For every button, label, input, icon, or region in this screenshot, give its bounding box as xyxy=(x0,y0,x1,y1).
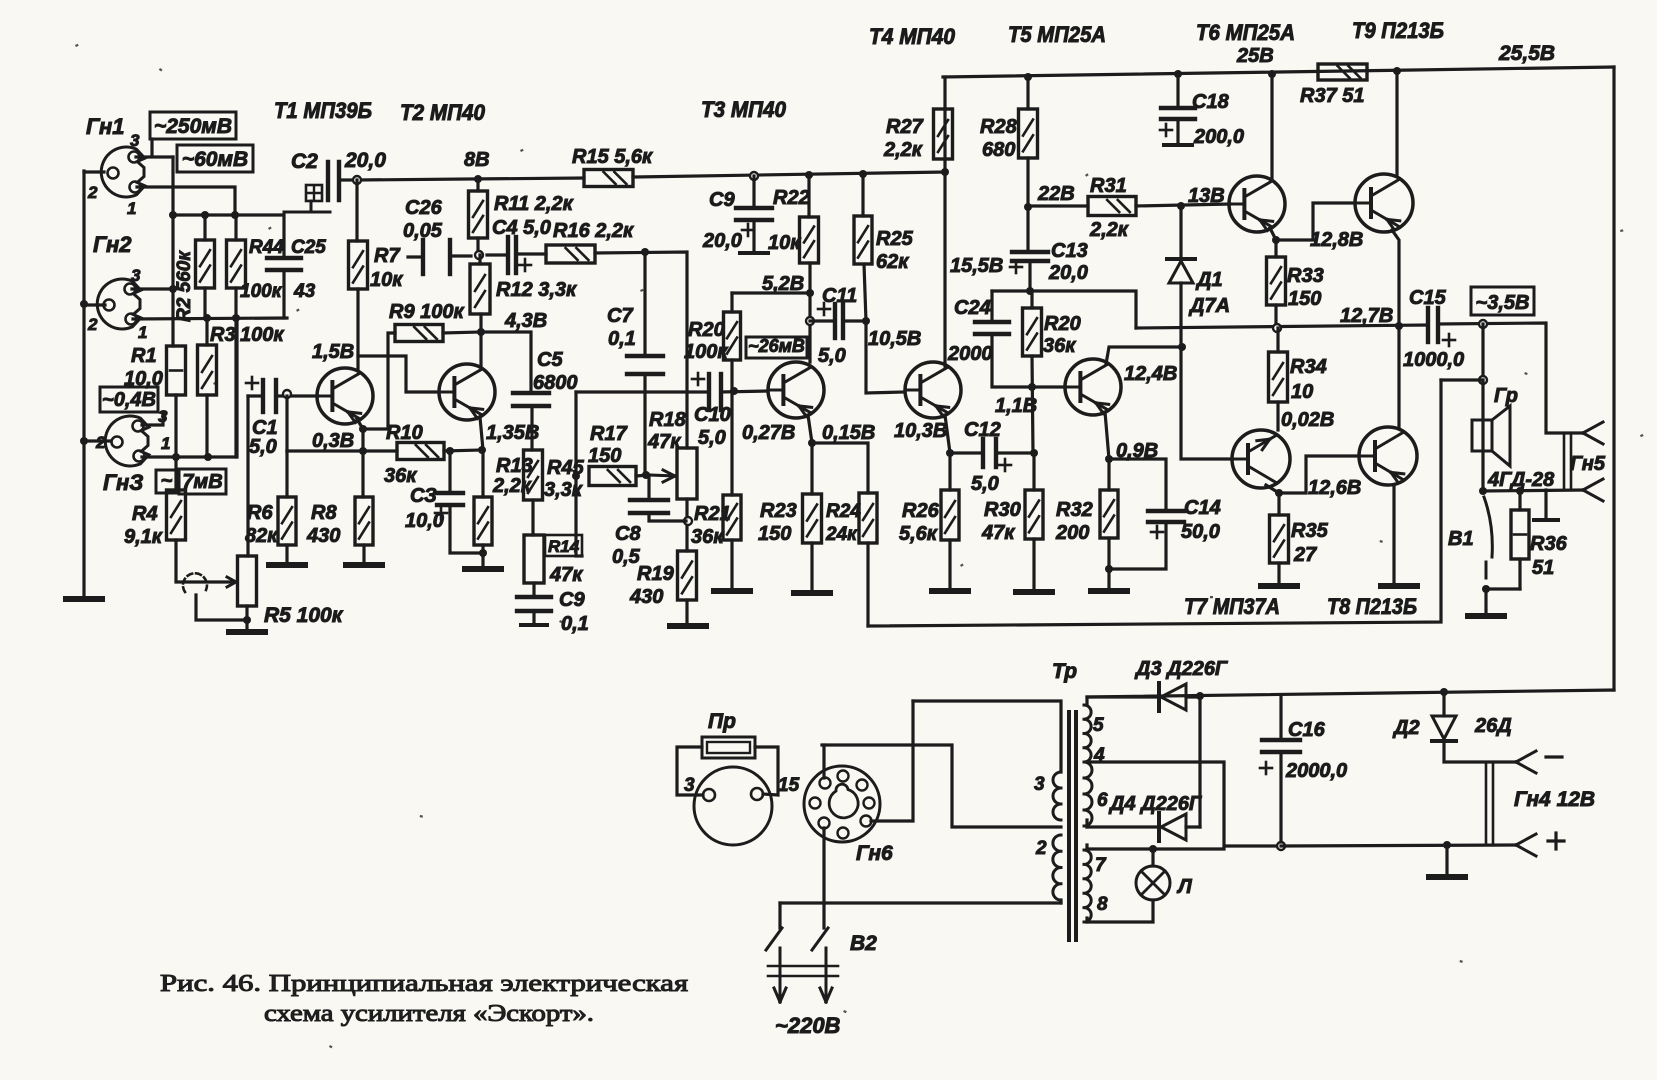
wire T6e to T9 base xyxy=(1276,203,1355,240)
node rail318 R44col xyxy=(232,314,240,322)
svg-text:13В: 13В xyxy=(1188,185,1225,207)
box ~3.5V xyxy=(1471,287,1534,315)
wire R33 bottom stem xyxy=(1274,305,1277,328)
resistor R23 xyxy=(803,494,822,543)
wire Gn6 right pin run xyxy=(871,701,913,821)
svg-text:С24: С24 xyxy=(954,297,991,319)
capacitor C10 xyxy=(707,374,711,410)
svg-text:2000,0: 2000,0 xyxy=(1285,760,1347,782)
svg-text:С11: С11 xyxy=(822,285,857,307)
svg-text:~26мВ: ~26мВ xyxy=(748,336,805,356)
resistor R33 xyxy=(1267,257,1286,305)
svg-text:С8: С8 xyxy=(615,523,641,545)
wire primary top lead xyxy=(913,701,1061,772)
node R25 top xyxy=(859,170,867,178)
svg-text:7мВ: 7мВ xyxy=(182,471,222,493)
svg-text:Гн4 12В: Гн4 12В xyxy=(1514,788,1595,811)
symbol R5 wiper arrow xyxy=(228,581,236,584)
svg-text:Гн1: Гн1 xyxy=(86,114,124,139)
svg-text:Д1: Д1 xyxy=(1195,269,1223,291)
wire C9a bottom stem xyxy=(752,220,755,251)
svg-text:Т9 П213Б: Т9 П213Б xyxy=(1352,18,1444,43)
node 22V xyxy=(1024,203,1032,211)
svg-text:10,0: 10,0 xyxy=(124,368,163,390)
node T7 emitter xyxy=(1275,489,1283,497)
svg-text:26Д: 26Д xyxy=(1474,715,1512,737)
node T4 emitter xyxy=(946,449,954,457)
svg-text:С13: С13 xyxy=(1051,240,1088,262)
svg-text:12,6В: 12,6В xyxy=(1308,477,1361,499)
node R5 bottom xyxy=(243,616,251,624)
wire Gn1 pin3 to column xyxy=(136,155,173,158)
box ~26mV xyxy=(746,337,807,358)
ground T8 xyxy=(1381,583,1417,589)
wire Gn5 switch bar xyxy=(1534,518,1558,522)
svg-text:3: 3 xyxy=(1034,774,1045,795)
transistor T1 xyxy=(317,368,373,424)
node gnd tap xyxy=(1443,841,1451,849)
wire R23 ground stem xyxy=(810,543,813,591)
wire R30 ground stem xyxy=(1032,539,1035,590)
svg-text:R3: R3 xyxy=(210,324,236,346)
box ~0.4V xyxy=(100,387,158,412)
svg-text:С2: С2 xyxy=(291,150,318,173)
wire T4 collector col xyxy=(943,77,946,366)
wire R2 bottom stem xyxy=(203,288,206,318)
transistor T9 xyxy=(1355,174,1413,232)
svg-text:С26: С26 xyxy=(405,197,443,219)
node T6 emitter xyxy=(1272,236,1280,244)
wire R24 branch xyxy=(812,443,868,493)
svg-text:Д3 Д226Г: Д3 Д226Г xyxy=(1134,658,1229,680)
wire C18 top stem xyxy=(1176,74,1179,108)
wire T6 collector xyxy=(1270,74,1273,178)
svg-text:27: 27 xyxy=(1293,544,1317,566)
svg-text:36к: 36к xyxy=(384,465,417,487)
ground B1 xyxy=(1468,613,1504,619)
connector Gn2 xyxy=(97,279,141,329)
wire Gn3 pin3 stub xyxy=(142,412,163,425)
wire top bus xyxy=(943,67,1614,77)
svg-text:36к: 36к xyxy=(691,526,724,548)
node C14 bottom xyxy=(1105,565,1113,573)
wire C12 left lead xyxy=(950,451,983,454)
node R13 bottom xyxy=(479,549,487,557)
svg-text:СЗ: СЗ xyxy=(410,485,437,507)
wire R45 to R14 xyxy=(531,500,534,535)
wire R30 top stem xyxy=(1032,453,1035,490)
wire Gn2 pin1 rail y318 xyxy=(133,318,287,319)
wire C3 top stem xyxy=(448,451,451,493)
svg-text:47к: 47к xyxy=(981,522,1015,544)
svg-text:47к: 47к xyxy=(647,431,681,453)
svg-text:0,15В: 0,15В xyxy=(822,422,875,444)
svg-text:6: 6 xyxy=(1097,790,1108,811)
node C16 bottom xyxy=(1277,842,1285,850)
wire R34 to T7 collector xyxy=(1276,402,1279,430)
wire C18 end bar xyxy=(1164,143,1192,147)
svg-text:R1: R1 xyxy=(131,345,157,367)
wire Gn5 switch stub xyxy=(1544,490,1547,518)
svg-text:8В: 8В xyxy=(464,149,490,171)
wire C1 left stub xyxy=(248,394,263,397)
wire R21 ground stem xyxy=(730,540,733,589)
svg-text:36к: 36к xyxy=(1043,335,1076,357)
wire T9 emitter col xyxy=(1392,230,1399,427)
wire tone column x576 xyxy=(574,392,577,476)
wire w8 bottom stub xyxy=(1085,918,1088,922)
svg-text:10,3В: 10,3В xyxy=(894,420,947,442)
node speaker top xyxy=(1479,376,1487,384)
wire R3 bottom stem xyxy=(205,395,208,457)
node base measure xyxy=(283,390,291,398)
node T1e R9 xyxy=(359,425,367,433)
svg-text:R12 3,3к: R12 3,3к xyxy=(496,279,577,301)
label plus sign xyxy=(1548,839,1564,842)
svg-text:R4: R4 xyxy=(132,503,158,525)
node R37 right xyxy=(1393,67,1401,75)
transformer secondary winding 5-4 xyxy=(1084,705,1091,762)
wire D4 out xyxy=(1186,825,1200,828)
node C18 top xyxy=(1174,70,1182,78)
svg-text:150: 150 xyxy=(758,523,791,545)
wire T5 collector xyxy=(1106,347,1182,364)
wire C16 top stem xyxy=(1279,695,1282,740)
svg-text:R18: R18 xyxy=(649,409,687,431)
node C9 top xyxy=(750,172,758,180)
lamp L xyxy=(1136,866,1170,900)
node lamp top xyxy=(1149,845,1157,853)
svg-text:200: 200 xyxy=(1055,522,1089,544)
diode D2 xyxy=(1432,716,1456,739)
jack Gn5 sleeve lines xyxy=(1563,433,1566,490)
svg-text:430: 430 xyxy=(629,586,663,608)
wire R1 bottom stem xyxy=(174,395,177,457)
node C11 tap xyxy=(806,317,814,325)
wire R20b top stem xyxy=(1030,291,1033,308)
node Gn3 pin2 on rail xyxy=(80,437,88,445)
svg-text:20,0: 20,0 xyxy=(702,230,742,252)
capacitor C11 xyxy=(833,304,837,338)
capacitor C14 xyxy=(1148,509,1184,513)
svg-text:R13: R13 xyxy=(496,455,533,477)
wire mains bottom run xyxy=(780,901,1061,904)
wire w6 bottom stub xyxy=(1085,820,1088,827)
svg-text:R24: R24 xyxy=(826,501,861,522)
capacitor C13 xyxy=(1012,250,1048,254)
node D2 top xyxy=(1440,688,1448,696)
wire R19 ground stem xyxy=(685,600,688,624)
svg-text:20,0: 20,0 xyxy=(1048,262,1088,284)
jack Gn5 forks xyxy=(1583,422,1603,433)
potentiometer R18 xyxy=(677,448,697,499)
svg-text:С12: С12 xyxy=(964,419,1001,441)
resistor R14 xyxy=(524,535,544,583)
resistor R44 xyxy=(227,240,246,288)
wire T8 emitter stem xyxy=(1392,485,1395,583)
wire Gn6 top pin stub xyxy=(822,745,825,778)
ground R23 xyxy=(794,590,830,596)
wire R31 to T6 base xyxy=(1136,204,1230,206)
svg-text:R30: R30 xyxy=(984,499,1021,521)
wire C4 right lead xyxy=(516,252,546,255)
svg-text:ГнЗ: ГнЗ xyxy=(103,470,143,495)
capacitor C4 xyxy=(506,237,510,273)
ground R26 xyxy=(932,588,968,594)
wire R17 right xyxy=(636,475,648,476)
wire R3 top stem xyxy=(205,318,208,345)
svg-text:Д4 Д226Г: Д4 Д226Г xyxy=(1108,793,1203,815)
svg-text:R11 2,2к: R11 2,2к xyxy=(494,193,574,215)
svg-text:Гн5: Гн5 xyxy=(1570,453,1606,475)
resistor R9 xyxy=(395,325,443,342)
jack Gn4 forks xyxy=(1516,751,1536,762)
wire base to R10 column xyxy=(285,396,288,451)
wire input column x173 xyxy=(171,157,174,346)
svg-text:С16: С16 xyxy=(1288,719,1326,741)
transformer primary winding 3 xyxy=(1053,772,1061,820)
svg-text:25В: 25В xyxy=(1236,45,1274,67)
svg-text:Т3 МП40: Т3 МП40 xyxy=(701,97,787,122)
box ~250mV xyxy=(150,112,236,139)
node R22 top xyxy=(805,171,813,179)
wire R35 top stem xyxy=(1277,493,1280,515)
svg-text:150: 150 xyxy=(588,445,621,467)
svg-text:2: 2 xyxy=(87,183,98,202)
svg-text:25,5В: 25,5В xyxy=(1498,42,1555,65)
svg-text:10к: 10к xyxy=(370,269,403,291)
wire R9 right run xyxy=(443,332,481,333)
wire R13 ground stem xyxy=(481,545,484,567)
wire T2 emitter stem xyxy=(480,417,483,497)
svg-text:10к: 10к xyxy=(768,232,801,254)
node y457 R3 xyxy=(204,453,212,461)
wire C25 bottom stem xyxy=(282,270,285,318)
potentiometer R5 xyxy=(238,556,257,606)
capacitor C8 xyxy=(630,498,668,502)
transistor T6 xyxy=(1229,176,1285,232)
wire R28 bottom col xyxy=(1026,158,1029,252)
node T1e y451 xyxy=(359,447,367,455)
wire T3 emitter xyxy=(808,415,812,494)
svg-text:4,3В: 4,3В xyxy=(504,310,547,332)
wire R24 bottom stem xyxy=(866,543,869,626)
wire T5 emitter xyxy=(1105,412,1109,490)
svg-text:R32: R32 xyxy=(1056,499,1093,521)
wire R35 ground stem xyxy=(1277,563,1280,583)
capacitor C9b xyxy=(517,595,551,599)
resistor R2 xyxy=(196,240,215,288)
node T3 emitter xyxy=(808,439,816,447)
node rail215 R2 xyxy=(201,211,209,219)
wire w5 to D3 xyxy=(1087,695,1158,698)
resistor R22 xyxy=(800,217,819,263)
node R11 top xyxy=(474,175,482,183)
resistor R24 xyxy=(859,493,877,543)
node y457 R1R4 xyxy=(172,453,180,461)
node T3 base xyxy=(730,387,738,395)
svg-text:R44: R44 xyxy=(249,237,284,258)
wire T7 emitter xyxy=(1266,485,1279,493)
wire C9b end bar xyxy=(521,623,547,627)
wire T1 collector xyxy=(356,289,359,370)
wire T9 collector xyxy=(1395,71,1398,175)
svg-text:В2: В2 xyxy=(850,932,877,955)
wire R2 top stem xyxy=(203,215,206,240)
svg-text:5,0: 5,0 xyxy=(971,473,999,495)
svg-text:R36: R36 xyxy=(1530,533,1568,555)
svg-text:С15: С15 xyxy=(1409,287,1447,309)
node C7 top xyxy=(641,248,649,256)
transformer core xyxy=(1067,712,1071,940)
svg-text:1: 1 xyxy=(161,434,170,453)
wire R9 left run xyxy=(363,333,395,429)
resistor R32 xyxy=(1100,490,1118,538)
svg-text:R33: R33 xyxy=(1287,265,1324,287)
wire D1 bottom col xyxy=(1181,283,1232,459)
wire D3 out xyxy=(1186,695,1200,698)
resistor R6 xyxy=(278,497,296,545)
wire right border xyxy=(1612,67,1615,690)
node D1 top xyxy=(1177,202,1185,210)
svg-text:R20: R20 xyxy=(1044,313,1081,335)
svg-text:0,27В: 0,27В xyxy=(742,422,795,444)
wire C11 right lead xyxy=(843,319,866,322)
connector Gn1 xyxy=(101,147,145,197)
ground R30 xyxy=(1016,589,1052,595)
capacitor C2 xyxy=(326,162,330,200)
wire speaker column top xyxy=(1481,324,1484,380)
svg-text:12,7В: 12,7В xyxy=(1340,305,1393,327)
svg-text:~0,4В: ~0,4В xyxy=(102,389,156,411)
switch B2 xyxy=(766,928,782,950)
wire DC plus bus xyxy=(1089,690,1614,697)
svg-text:R5 100к: R5 100к xyxy=(264,604,344,627)
svg-text:Т1 МП39Б: Т1 МП39Б xyxy=(274,98,372,123)
capacitor C26 xyxy=(421,240,425,274)
wire D2 top stem xyxy=(1442,692,1445,716)
wire speaker column xyxy=(1481,380,1484,491)
svg-text:Т7 МП37А: Т7 МП37А xyxy=(1184,594,1280,619)
svg-text:2: 2 xyxy=(87,315,98,334)
svg-text:3: 3 xyxy=(130,131,140,150)
ground R35 xyxy=(1261,583,1297,589)
svg-text:5: 5 xyxy=(1093,715,1104,736)
wire Gn1 pin1 run xyxy=(137,187,235,215)
svg-text:22В: 22В xyxy=(1037,183,1075,205)
svg-text:Т2 МП40: Т2 МП40 xyxy=(400,100,486,125)
wire C9a top stem xyxy=(752,176,755,208)
wire bias rail y215 xyxy=(173,213,283,216)
svg-text:8: 8 xyxy=(1097,894,1108,915)
resistor R7 xyxy=(349,241,368,289)
wire R4 top stem xyxy=(174,457,177,490)
svg-text:R19: R19 xyxy=(637,563,675,585)
node 3.5V xyxy=(1479,320,1487,328)
svg-text:С18: С18 xyxy=(1192,91,1230,113)
wire 12V rail xyxy=(1281,845,1516,846)
node Gn2 pin2 on rail xyxy=(80,300,88,308)
wire fuse right lead xyxy=(755,747,778,795)
node R18-R19 xyxy=(684,517,692,525)
svg-text:~60мВ: ~60мВ xyxy=(182,148,248,171)
resistor R30 xyxy=(1025,490,1043,539)
wire wiper link down xyxy=(196,595,247,620)
capacitor C3 xyxy=(437,491,463,495)
ground left rail xyxy=(66,596,102,602)
resistor R17 xyxy=(589,467,636,486)
wire T1 emitter xyxy=(357,419,363,497)
node R37 left xyxy=(1268,70,1276,78)
box ~ mark xyxy=(156,470,177,493)
capacitor C9a xyxy=(736,206,772,210)
wire 250mV box stub xyxy=(150,139,153,156)
wire 8V bus xyxy=(357,178,584,180)
jack Gn4 sleeve lines xyxy=(1485,762,1488,845)
wire fuse left lead xyxy=(677,747,703,795)
wire C14 bottom lead xyxy=(1109,522,1166,569)
wire R25 to T4 base xyxy=(864,264,905,393)
wire R8 ground stem xyxy=(362,545,365,563)
transformer primary winding 2 xyxy=(1053,835,1061,900)
capacitor C15 xyxy=(1426,308,1430,342)
svg-text:R17: R17 xyxy=(590,423,628,445)
svg-text:R9 100к: R9 100к xyxy=(389,301,464,323)
wire T2 collector stem xyxy=(479,332,482,368)
node T4col bus8V xyxy=(941,168,949,176)
svg-text:С9: С9 xyxy=(709,189,735,211)
node B1 bottom xyxy=(1482,585,1490,593)
svg-text:R28: R28 xyxy=(980,116,1018,138)
svg-text:3: 3 xyxy=(684,775,695,796)
wire Gn1 pin2 stub xyxy=(84,170,104,173)
wire C26 right lead xyxy=(450,254,471,257)
resistor R19 xyxy=(678,551,697,600)
svg-text:0,02В: 0,02В xyxy=(1281,409,1334,431)
svg-text:R15 5,6к: R15 5,6к xyxy=(572,146,653,168)
svg-text:0,3В: 0,3В xyxy=(312,430,354,452)
node C13 rail xyxy=(1026,287,1034,295)
svg-text:62к: 62к xyxy=(876,251,909,273)
svg-text:5,0: 5,0 xyxy=(698,427,726,449)
ground R6 xyxy=(269,562,305,568)
ground R5 xyxy=(229,629,265,635)
svg-text:0,1: 0,1 xyxy=(608,328,636,350)
wire C2 left bracket xyxy=(284,211,330,214)
node A xyxy=(475,251,483,259)
resistor R4 xyxy=(167,490,186,540)
transistor T5 xyxy=(1065,359,1121,415)
wire R18 bottom stem xyxy=(685,499,688,551)
wire D2 to minus xyxy=(1444,741,1516,762)
svg-text:Рис. 46. Принципиальная эле: Рис. 46. Принципиальная электрическая xyxy=(160,971,688,997)
symbol R5 adjust arc xyxy=(183,573,207,592)
node R36 top xyxy=(1516,487,1524,495)
svg-text:Д7А: Д7А xyxy=(1188,295,1230,317)
node R17 left xyxy=(572,472,580,480)
svg-text:Тр: Тр xyxy=(1052,660,1077,683)
resistor R25 xyxy=(854,216,872,264)
svg-text:R2 560к: R2 560к xyxy=(174,250,195,322)
wire T3c to R20a xyxy=(732,291,810,294)
svg-text:12,4В: 12,4В xyxy=(1124,363,1177,385)
capacitor C18 xyxy=(1161,106,1195,110)
wire D1 top stem xyxy=(1179,206,1182,259)
wire R20a bottom xyxy=(730,360,733,495)
label R14 boxed xyxy=(545,535,582,556)
wire C15 right xyxy=(1438,323,1583,433)
wire rail y291 xyxy=(992,291,1136,328)
